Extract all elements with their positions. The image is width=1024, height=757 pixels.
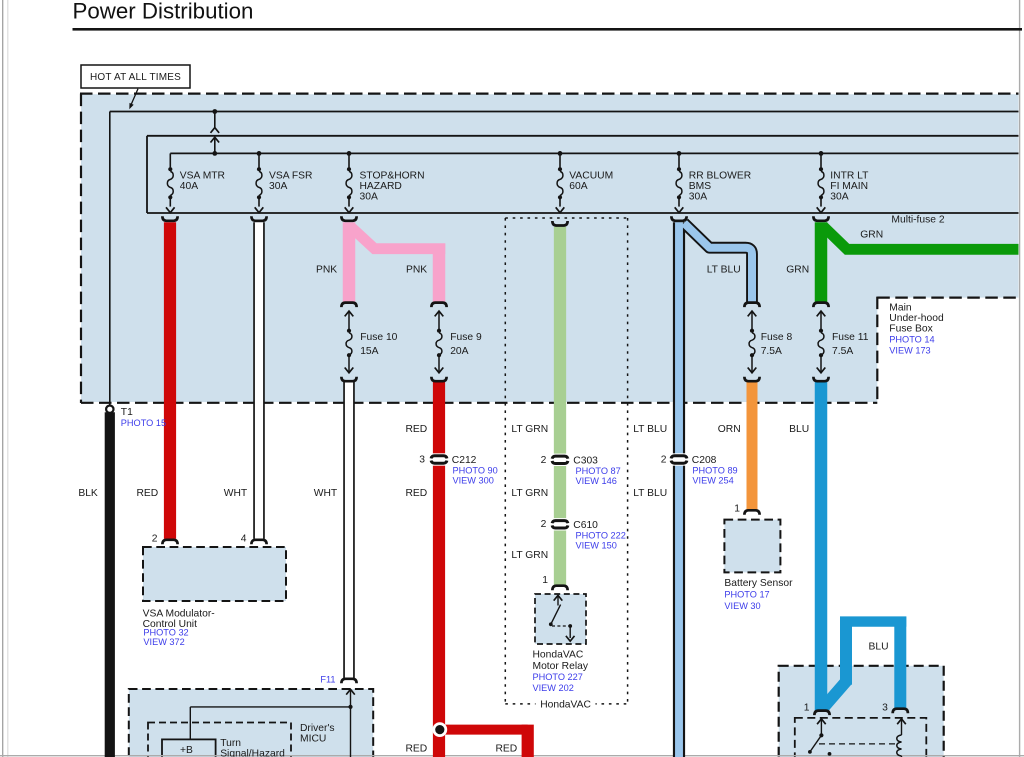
svg-text:HOT AT ALL TIMES: HOT AT ALL TIMES [90, 72, 181, 83]
svg-text:Turn: Turn [220, 738, 241, 749]
svg-text:WHT: WHT [314, 488, 338, 499]
svg-text:Fuse 11: Fuse 11 [832, 332, 869, 343]
svg-text:VIEW 372: VIEW 372 [143, 637, 184, 647]
svg-text:Fuse Box: Fuse Box [889, 324, 933, 335]
svg-text:LT BLU: LT BLU [707, 265, 741, 276]
svg-text:LT GRN: LT GRN [511, 550, 548, 561]
svg-text:BLU: BLU [789, 424, 809, 435]
svg-text:1: 1 [804, 702, 810, 713]
svg-text:+B: +B [180, 745, 193, 756]
svg-text:C212: C212 [452, 455, 477, 466]
svg-text:30A: 30A [360, 192, 378, 203]
svg-text:Power Distribution: Power Distribution [73, 0, 254, 24]
svg-text:Battery Sensor: Battery Sensor [724, 578, 793, 589]
svg-text:MICU: MICU [300, 733, 326, 744]
svg-text:2: 2 [152, 534, 158, 545]
svg-text:WHT: WHT [224, 488, 248, 499]
svg-text:LT GRN: LT GRN [511, 424, 548, 435]
svg-text:Motor Relay: Motor Relay [533, 661, 589, 672]
svg-text:RR BLOWER: RR BLOWER [689, 170, 751, 181]
svg-text:GRN: GRN [860, 229, 883, 240]
svg-text:PHOTO 14: PHOTO 14 [889, 335, 934, 345]
svg-text:F11: F11 [320, 675, 335, 685]
svg-text:3: 3 [882, 702, 888, 713]
svg-text:30A: 30A [689, 192, 707, 203]
svg-text:20A: 20A [450, 346, 468, 357]
svg-text:VIEW 146: VIEW 146 [576, 476, 617, 486]
svg-text:VIEW 173: VIEW 173 [889, 346, 930, 356]
svg-text:Fuse 8: Fuse 8 [761, 332, 793, 343]
svg-text:LT BLU: LT BLU [633, 424, 667, 435]
svg-text:LT BLU: LT BLU [633, 488, 667, 499]
svg-text:HondaVAC: HondaVAC [540, 699, 591, 710]
svg-text:ORN: ORN [718, 424, 741, 435]
svg-text:FI MAIN: FI MAIN [830, 181, 868, 192]
svg-text:BLK: BLK [78, 488, 98, 499]
svg-text:3: 3 [419, 455, 425, 466]
svg-text:PHOTO 32: PHOTO 32 [143, 628, 188, 638]
svg-text:RED: RED [405, 488, 427, 499]
svg-text:STOP&HORN: STOP&HORN [360, 170, 425, 181]
svg-text:PNK: PNK [406, 265, 427, 276]
svg-text:RED: RED [496, 744, 518, 755]
svg-text:Under-hood: Under-hood [889, 313, 944, 324]
svg-text:T1: T1 [121, 407, 133, 418]
svg-text:PHOTO 90: PHOTO 90 [453, 466, 498, 476]
svg-text:RED: RED [136, 488, 158, 499]
svg-text:VACUUM: VACUUM [569, 170, 613, 181]
svg-text:Fuse 10: Fuse 10 [360, 332, 397, 343]
svg-text:7.5A: 7.5A [761, 346, 782, 357]
svg-text:1: 1 [734, 503, 740, 514]
svg-text:BMS: BMS [689, 181, 711, 192]
svg-text:Multi-fuse 2: Multi-fuse 2 [891, 214, 944, 225]
svg-text:Driver's: Driver's [300, 723, 335, 734]
svg-text:PHOTO 89: PHOTO 89 [692, 466, 737, 476]
svg-text:LT GRN: LT GRN [511, 488, 548, 499]
svg-text:BLU: BLU [869, 641, 889, 652]
svg-text:30A: 30A [269, 181, 287, 192]
svg-text:VIEW 202: VIEW 202 [533, 683, 574, 693]
svg-text:HondaVAC: HondaVAC [533, 650, 584, 661]
svg-text:30A: 30A [830, 192, 848, 203]
svg-text:C208: C208 [692, 455, 717, 466]
svg-text:GRN: GRN [786, 265, 809, 276]
svg-text:2: 2 [541, 519, 547, 530]
svg-text:1: 1 [542, 575, 548, 586]
svg-text:VIEW 150: VIEW 150 [576, 541, 617, 551]
svg-text:INTR LT: INTR LT [830, 170, 869, 181]
svg-text:Signal/Hazard: Signal/Hazard [220, 749, 285, 757]
svg-text:60A: 60A [569, 181, 587, 192]
svg-text:Fuse 9: Fuse 9 [450, 332, 482, 343]
svg-text:PHOTO 17: PHOTO 17 [724, 590, 769, 600]
svg-text:PHOTO 15: PHOTO 15 [121, 418, 166, 428]
svg-text:VSA FSR: VSA FSR [269, 170, 313, 181]
svg-text:PHOTO 227: PHOTO 227 [533, 672, 583, 682]
svg-text:15A: 15A [360, 346, 378, 357]
svg-text:VIEW 254: VIEW 254 [692, 476, 733, 486]
svg-text:40A: 40A [180, 181, 198, 192]
svg-text:VSA Modulator-: VSA Modulator- [143, 609, 215, 620]
svg-text:4: 4 [241, 534, 247, 545]
svg-text:VSA MTR: VSA MTR [180, 170, 225, 181]
svg-text:PNK: PNK [316, 265, 337, 276]
svg-text:RED: RED [405, 424, 427, 435]
svg-text:VIEW 300: VIEW 300 [453, 476, 494, 486]
svg-text:Main: Main [889, 302, 912, 313]
svg-text:VIEW 30: VIEW 30 [724, 601, 760, 611]
svg-text:C303: C303 [573, 455, 598, 466]
svg-text:RED: RED [405, 744, 427, 755]
svg-text:PHOTO 87: PHOTO 87 [576, 466, 621, 476]
svg-text:HAZARD: HAZARD [360, 181, 402, 192]
svg-text:7.5A: 7.5A [832, 346, 853, 357]
svg-text:2: 2 [661, 455, 667, 466]
svg-text:2: 2 [541, 455, 547, 466]
svg-text:PHOTO 222: PHOTO 222 [576, 530, 626, 540]
svg-text:C610: C610 [573, 520, 598, 531]
